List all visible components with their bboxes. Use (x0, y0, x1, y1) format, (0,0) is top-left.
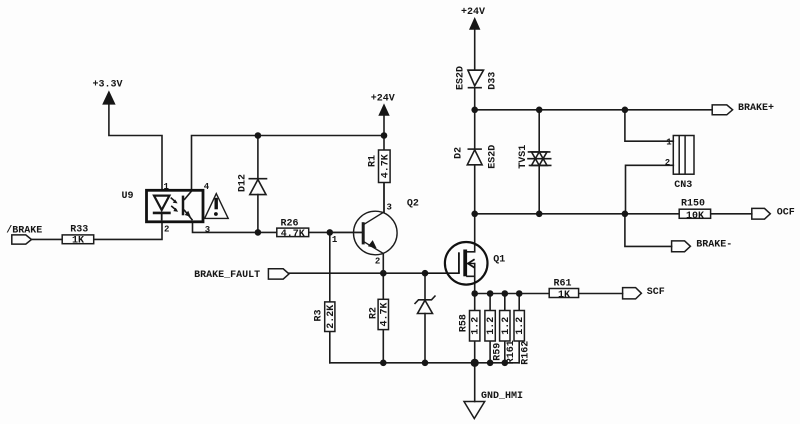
svg-text:R59: R59 (493, 343, 504, 361)
svg-text:1.2: 1.2 (486, 317, 497, 335)
svg-text:2.2K: 2.2K (326, 305, 337, 329)
svg-text:R1: R1 (368, 155, 379, 167)
svg-text:R161: R161 (506, 340, 517, 364)
svg-text:+24V: +24V (461, 7, 485, 18)
svg-text:R150: R150 (681, 199, 705, 210)
svg-text:4.7K: 4.7K (281, 229, 305, 240)
svg-text:Q2: Q2 (407, 198, 419, 209)
svg-text:2: 2 (164, 224, 169, 234)
svg-text:TVS1: TVS1 (518, 145, 529, 169)
svg-text:1.2: 1.2 (471, 317, 482, 335)
svg-text:1.2: 1.2 (501, 317, 512, 335)
svg-text:BRAKE+: BRAKE+ (738, 103, 774, 114)
svg-text:+3.3V: +3.3V (93, 80, 123, 91)
svg-text:BRAKE-: BRAKE- (696, 239, 732, 250)
svg-text:GND_HMI: GND_HMI (481, 391, 523, 402)
svg-text:1: 1 (332, 235, 338, 245)
svg-text:4.7K: 4.7K (379, 302, 390, 326)
svg-text:R2: R2 (369, 307, 380, 319)
svg-text:D2: D2 (454, 147, 465, 159)
svg-text:2: 2 (665, 158, 670, 168)
svg-text:OCF: OCF (777, 207, 795, 218)
svg-text:BRAKE_FAULT: BRAKE_FAULT (194, 270, 260, 281)
svg-text:ES2D: ES2D (487, 145, 498, 169)
svg-text:R26: R26 (281, 218, 299, 229)
svg-text:R58: R58 (458, 314, 469, 332)
svg-text:/BRAKE: /BRAKE (6, 224, 42, 236)
svg-text:Q1: Q1 (493, 254, 505, 265)
svg-text:1: 1 (666, 137, 672, 147)
svg-text:SCF: SCF (647, 287, 665, 298)
svg-text:1.2: 1.2 (515, 317, 526, 335)
svg-text:2: 2 (375, 257, 380, 267)
svg-text:10K: 10K (686, 211, 704, 222)
svg-text:3: 3 (205, 225, 210, 235)
svg-text:1K: 1K (558, 290, 570, 301)
svg-text:R61: R61 (554, 279, 572, 290)
svg-text:4.7K: 4.7K (380, 154, 391, 178)
svg-text:CN3: CN3 (674, 180, 692, 191)
svg-text:1: 1 (164, 182, 170, 192)
svg-text:1K: 1K (72, 236, 84, 247)
svg-text:3: 3 (387, 202, 392, 212)
svg-text:R162: R162 (521, 341, 532, 365)
svg-text:R33: R33 (70, 225, 88, 236)
svg-text:D12: D12 (237, 174, 248, 192)
svg-text:ES2D: ES2D (456, 66, 467, 90)
svg-text:D33: D33 (488, 72, 499, 90)
svg-text:R3: R3 (314, 309, 325, 321)
svg-text:+24V: +24V (371, 94, 395, 105)
svg-text:4: 4 (204, 182, 210, 192)
svg-text:U9: U9 (122, 191, 134, 202)
